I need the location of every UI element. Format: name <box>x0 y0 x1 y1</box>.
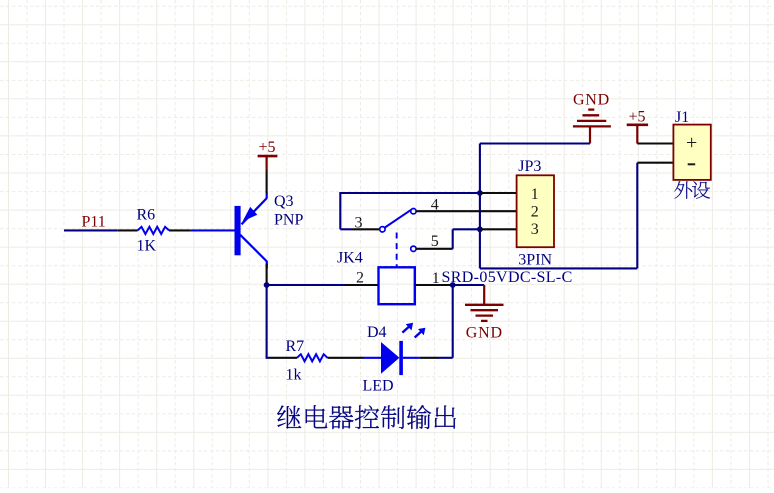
svg-text:4: 4 <box>431 197 439 214</box>
transistor Q3 base pin <box>191 229 235 231</box>
svg-text:3PIN: 3PIN <box>518 251 552 268</box>
junction B <box>450 282 456 288</box>
relay JK4 pin 4 <box>416 210 480 212</box>
wire emitter to +5 <box>266 171 268 194</box>
relay JK4 contact 3 circle <box>380 227 385 232</box>
relay JK4 coil box <box>379 267 415 304</box>
svg-text:3: 3 <box>355 215 363 232</box>
wire junction A to coil <box>267 284 345 286</box>
relay JK4 contact 5 circle <box>411 246 416 251</box>
wire relay common left drop <box>339 192 341 229</box>
svg-text:1k: 1k <box>286 366 302 383</box>
svg-text:P11: P11 <box>82 214 106 231</box>
svg-text:SRD-05VDC-SL-C: SRD-05VDC-SL-C <box>442 269 573 286</box>
power +5 (J1) <box>627 124 648 127</box>
title: relay control output <box>277 405 301 428</box>
relay JK4 armature <box>385 210 411 228</box>
LED D4 light arrow 2 <box>415 332 422 338</box>
power +5 (Q3 emitter) <box>258 155 278 158</box>
svg-text:JK4: JK4 <box>337 250 363 267</box>
svg-text:1: 1 <box>432 270 440 287</box>
connector J1 pin + wire <box>637 142 673 144</box>
LED D4 anode pin <box>364 357 382 359</box>
relay JK4 contact 4 circle <box>411 209 416 214</box>
relay JK4 pin 5 <box>416 248 453 250</box>
wire collector down <box>266 264 268 285</box>
connector JP3 body <box>517 175 554 247</box>
svg-text:R7: R7 <box>286 338 305 355</box>
connector JP3 pin 3 <box>480 228 517 230</box>
wire to relay pin 3 <box>340 228 352 230</box>
LED D4 triangle <box>381 342 399 374</box>
junction C <box>477 190 483 196</box>
wire to GND top <box>480 142 590 144</box>
junction A <box>264 282 270 288</box>
resistor R1 (R6) <box>118 229 138 231</box>
connector JP3 pin 2 <box>480 210 517 212</box>
transistor Q3 base bar <box>235 206 241 255</box>
svg-text:PNP: PNP <box>274 212 303 229</box>
LED D4 light arrow 1 <box>402 327 409 333</box>
resistor R7 <box>270 357 297 359</box>
transistor Q3 emitter <box>266 193 268 199</box>
wire junction A down <box>266 285 268 358</box>
relay JK4 actuator dashed link <box>396 233 398 267</box>
svg-text:J1: J1 <box>675 109 689 126</box>
label waishe (peripheral) <box>674 181 692 199</box>
wire vertical net <box>479 144 481 269</box>
LED D4 cathode bar <box>399 341 403 375</box>
LED D4 cathode pin <box>403 357 420 359</box>
svg-text:D4: D4 <box>367 324 387 341</box>
transistor Q3 collector <box>240 235 267 262</box>
wire junction B to GND <box>453 284 485 286</box>
wire pin5 up <box>452 229 454 249</box>
wire bottom route <box>480 267 637 269</box>
svg-text:GND: GND <box>466 324 503 341</box>
wire net P11 <box>64 229 118 231</box>
relay JK4 pin 3 <box>352 228 380 230</box>
ground GND (bottom) <box>483 285 485 305</box>
svg-text:R6: R6 <box>137 207 156 224</box>
svg-text:+5: +5 <box>629 109 646 126</box>
svg-text:GND: GND <box>573 91 610 108</box>
junction D <box>477 226 483 232</box>
svg-text:LED: LED <box>363 378 394 395</box>
relay JK4 coil pin 2 <box>345 284 379 286</box>
J1 minus mark <box>688 163 696 165</box>
transistor Q3 emitter arrow <box>243 207 258 222</box>
svg-text:JP3: JP3 <box>518 158 541 175</box>
svg-text:3: 3 <box>531 221 539 238</box>
svg-text:+5: +5 <box>259 139 276 156</box>
ground GND (top, inverted) <box>588 108 594 110</box>
svg-text:1: 1 <box>531 186 539 203</box>
wire LED to junction B <box>420 357 438 359</box>
wire relay common top <box>340 192 480 194</box>
svg-text:+: + <box>686 132 697 154</box>
svg-text:2: 2 <box>531 203 539 220</box>
svg-text:Q3: Q3 <box>274 193 294 210</box>
connector J1 pin - wire <box>637 162 673 164</box>
svg-text:1K: 1K <box>137 238 157 255</box>
relay JK4 coil pin 1 <box>415 284 453 286</box>
connector JP3 pin 1 <box>480 192 517 194</box>
wire to R7 <box>266 357 268 358</box>
svg-text:5: 5 <box>431 233 439 250</box>
svg-text:2: 2 <box>356 269 364 286</box>
connector J1 body <box>673 125 710 180</box>
